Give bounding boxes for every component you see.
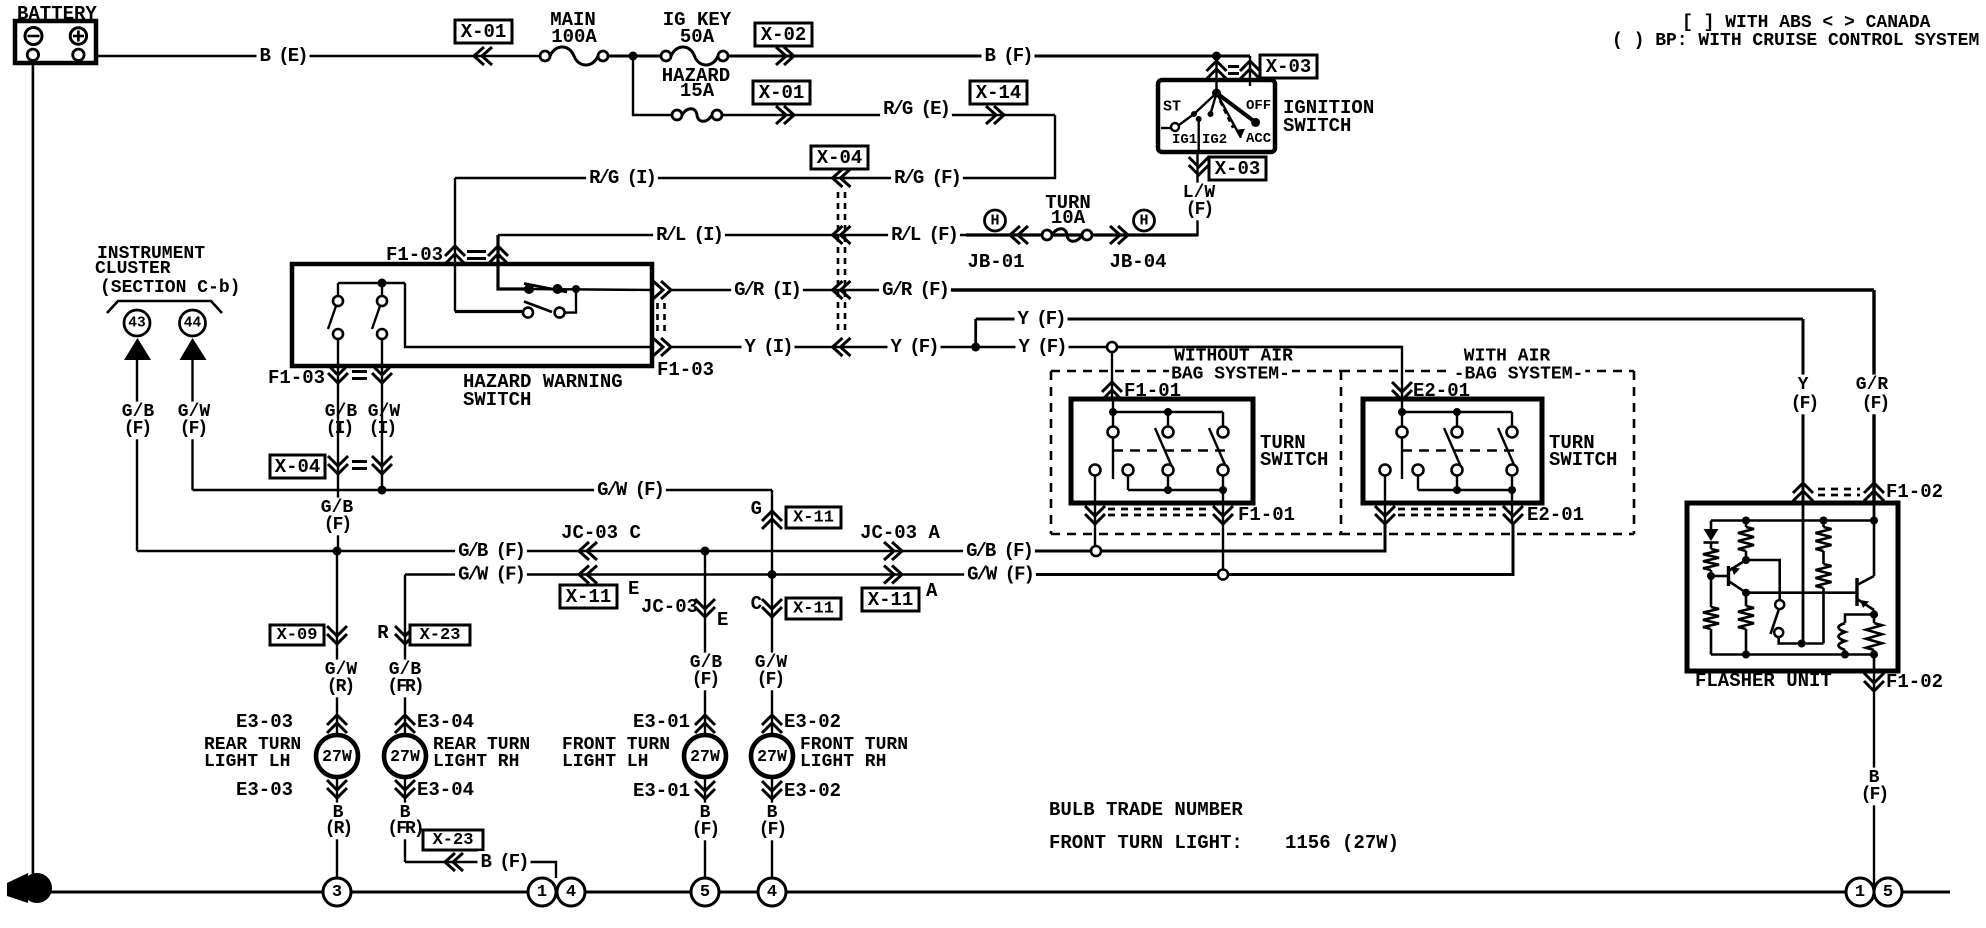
node G/B to turn switch 1 xyxy=(1091,546,1101,556)
label G/B (F) row right xyxy=(963,540,1035,562)
flasher unit box xyxy=(1687,503,1898,671)
connector E2-01 top xyxy=(1392,382,1412,400)
svg-text:ACC: ACC xyxy=(1246,131,1272,147)
svg-text:R: R xyxy=(377,622,389,644)
svg-text:LIGHT LH: LIGHT LH xyxy=(204,752,290,772)
label Y (I) xyxy=(742,336,795,358)
connector X-11 A xyxy=(884,566,902,584)
connector F1-03 right (G/R) xyxy=(653,281,671,299)
wire B (E) xyxy=(96,55,540,57)
svg-text:G/W (F): G/W (F) xyxy=(967,564,1033,586)
svg-text:G: G xyxy=(31,880,41,899)
svg-text:A: A xyxy=(926,580,938,602)
svg-text:G/B (F): G/B (F) xyxy=(458,540,524,562)
svg-text:E3-01: E3-01 xyxy=(633,711,690,733)
wire G/R (I) xyxy=(672,289,952,291)
label G/W (I) xyxy=(366,402,402,423)
wire B (F) jog xyxy=(405,862,556,878)
label G/W (F) lamp xyxy=(753,653,789,674)
label G/W (F) row right xyxy=(964,564,1036,586)
svg-text:LIGHT RH: LIGHT RH xyxy=(800,752,886,772)
svg-text:[ ] WITH ABS < > CANADA: [ ] WITH ABS < > CANADA xyxy=(1682,13,1931,33)
connector X-14 xyxy=(970,81,1027,104)
svg-text:X-09: X-09 xyxy=(277,626,318,645)
label R/G (F) xyxy=(891,167,963,189)
ignition switch contacts xyxy=(1161,80,1260,152)
svg-text:27W: 27W xyxy=(690,747,720,766)
svg-text:G/R: G/R xyxy=(1856,375,1889,395)
svg-text:E: E xyxy=(717,609,728,631)
wire G/B (F) from 43 xyxy=(136,360,138,551)
label B (E) xyxy=(257,45,310,67)
ground point 4 front xyxy=(758,878,786,906)
svg-text:SWITCH: SWITCH xyxy=(1283,115,1351,137)
svg-text:100A: 100A xyxy=(551,26,597,48)
label G/W (F) row xyxy=(594,479,666,501)
label B (F) front LH xyxy=(698,803,713,824)
svg-text:(F): (F) xyxy=(692,820,718,840)
connector B(F) chev xyxy=(445,853,463,871)
svg-text:H: H xyxy=(1139,213,1148,230)
connector X-01 (top) xyxy=(455,20,512,43)
svg-text:B (E): B (E) xyxy=(259,45,306,67)
connector E3-02 bottom xyxy=(762,781,782,799)
svg-text:R/G (F): R/G (F) xyxy=(894,167,960,189)
turn switch U2 box xyxy=(1363,399,1542,503)
wire R/G corner down xyxy=(455,115,1055,178)
svg-text:-BAG SYSTEM-: -BAG SYSTEM- xyxy=(1454,365,1584,385)
svg-text:X-23: X-23 xyxy=(433,831,474,850)
connector E3-04 bottom xyxy=(395,780,415,798)
svg-text:SWITCH: SWITCH xyxy=(1549,449,1617,471)
label G/R (F) xyxy=(879,279,951,301)
wire to HAZARD fuse xyxy=(633,56,672,115)
svg-text:X-04: X-04 xyxy=(817,147,863,169)
svg-text:F1-01: F1-01 xyxy=(1238,504,1295,526)
label R/G (I) xyxy=(586,167,658,189)
svg-text:X-11: X-11 xyxy=(566,586,612,608)
arrow 44 xyxy=(180,338,207,360)
svg-text:X-11: X-11 xyxy=(793,509,834,528)
label WITHOUT AIR BAG SYSTEM xyxy=(1172,346,1295,367)
label G/B (F) row left xyxy=(455,540,527,562)
svg-text:(SECTION C-b): (SECTION C-b) xyxy=(100,278,240,298)
ground symbol xyxy=(7,873,28,903)
indicator lamp 44 xyxy=(180,310,206,336)
node junction B xyxy=(629,52,638,61)
wire G/B (F) row xyxy=(137,550,1030,552)
battery xyxy=(15,3,97,63)
svg-text:5: 5 xyxy=(1883,883,1893,902)
ground point 1 right xyxy=(1846,878,1874,906)
indicator lamp 43 xyxy=(124,310,150,336)
svg-text:43: 43 xyxy=(128,316,145,332)
node G/W to turn switch 1 xyxy=(1218,570,1228,580)
wire G/B (I) down xyxy=(337,380,339,551)
svg-text:G/W (F): G/W (F) xyxy=(458,564,524,586)
wire Y (F) to flasher xyxy=(1802,319,1805,644)
svg-text:27W: 27W xyxy=(322,747,352,766)
wire G/W (F) row xyxy=(405,573,1035,575)
wire rear RH xyxy=(404,575,406,863)
node G/B junction front xyxy=(701,547,710,556)
connector X-04 row2 xyxy=(833,226,851,244)
lamp rear turn LH 27W xyxy=(316,735,358,777)
svg-text:44: 44 xyxy=(184,316,202,332)
svg-text:5: 5 xyxy=(700,883,710,902)
label B (F) flasher xyxy=(1867,768,1882,789)
hazard warning switch box xyxy=(292,264,652,366)
svg-text:B (F): B (F) xyxy=(480,851,527,873)
wire L/W (F) xyxy=(1190,152,1198,235)
svg-text:R/G (E): R/G (E) xyxy=(883,98,949,120)
svg-text:X-01: X-01 xyxy=(461,21,507,43)
svg-text:X-11: X-11 xyxy=(868,589,914,611)
hazard switch contacts xyxy=(455,235,652,318)
node G/W junction front xyxy=(768,570,777,579)
ground bus wire xyxy=(36,891,1950,894)
instrument cluster bracket xyxy=(107,301,222,313)
node G/B junction left xyxy=(333,547,342,556)
wire B ground-side: battery to ground bus xyxy=(32,63,35,880)
svg-text:4: 4 xyxy=(767,883,777,902)
dashed box WITH AIR BAG SYSTEM xyxy=(1341,370,1634,373)
connector X-09 xyxy=(270,625,324,645)
svg-text:(F): (F) xyxy=(324,515,350,535)
svg-text:X-02: X-02 xyxy=(761,24,807,46)
svg-text:G/R (F): G/R (F) xyxy=(882,279,948,301)
node G/W junction xyxy=(378,486,387,495)
label G/R (F) flasher xyxy=(1854,375,1890,396)
svg-text:(F): (F) xyxy=(1791,394,1817,414)
svg-text:X-04: X-04 xyxy=(275,456,321,478)
wire front LH xyxy=(704,551,706,892)
svg-text:15A: 15A xyxy=(680,80,715,102)
svg-text:E3-01: E3-01 xyxy=(633,780,690,802)
svg-text:BAG SYSTEM-: BAG SYSTEM- xyxy=(1171,365,1290,385)
svg-text:B (F): B (F) xyxy=(984,45,1031,67)
wire Y to turn switch 1 xyxy=(1111,352,1113,399)
connector X-03 (top) xyxy=(1207,61,1227,79)
svg-text:G/W (F): G/W (F) xyxy=(597,479,663,501)
label B (F) xyxy=(982,45,1035,67)
dashed box WITHOUT AIR BAG SYSTEM xyxy=(1051,370,1341,373)
svg-text:JC-03: JC-03 xyxy=(641,596,698,618)
svg-text:X-14: X-14 xyxy=(976,82,1022,104)
svg-text:WITH AIR: WITH AIR xyxy=(1464,347,1551,367)
wire G/W (F) from 44 xyxy=(191,360,193,490)
svg-text:X-01: X-01 xyxy=(759,82,805,104)
svg-text:F1-03: F1-03 xyxy=(657,359,714,381)
svg-text:Y: Y xyxy=(1798,375,1809,395)
wire R/G (E) xyxy=(722,114,1055,116)
connector X-03 (lower) xyxy=(1189,157,1209,175)
wire R/L (I) xyxy=(498,234,966,236)
flasher internals xyxy=(1703,503,1882,671)
wire U2 to G/W wire xyxy=(1512,523,1514,575)
svg-text:4: 4 xyxy=(566,883,576,902)
svg-text:X-03: X-03 xyxy=(1215,158,1261,180)
svg-text:(R): (R) xyxy=(325,819,351,839)
label G/B (FR) xyxy=(387,660,423,681)
svg-text:X-23: X-23 xyxy=(420,626,461,645)
wire G/W (I) down xyxy=(381,380,383,490)
svg-text:(F): (F) xyxy=(124,419,150,439)
lamp front turn RH 27W xyxy=(751,735,793,777)
connector E3-04 top xyxy=(395,715,415,733)
svg-text:3: 3 xyxy=(332,883,342,902)
ground point 1 xyxy=(528,878,556,906)
svg-text:JB-04: JB-04 xyxy=(1109,251,1166,273)
connector E3-02 top xyxy=(762,715,782,733)
svg-text:R/G (I): R/G (I) xyxy=(589,167,655,189)
svg-text:G/R (I): G/R (I) xyxy=(734,279,800,301)
svg-text:E3-02: E3-02 xyxy=(784,711,841,733)
turn switch U1 contacts xyxy=(1090,399,1229,523)
connector X-04 row1 xyxy=(811,146,868,169)
svg-text:1: 1 xyxy=(537,883,547,902)
wire front RH xyxy=(771,490,773,892)
ground point 3 xyxy=(323,878,351,906)
ground point 5 xyxy=(691,878,719,906)
svg-text:27W: 27W xyxy=(390,747,420,766)
svg-text:E3-03: E3-03 xyxy=(236,711,293,733)
label Y (F) upper xyxy=(1015,308,1068,330)
wire G/R (F) to flasher xyxy=(1872,290,1875,521)
svg-text:LIGHT LH: LIGHT LH xyxy=(562,752,648,772)
label Y (F) flasher xyxy=(1796,375,1811,396)
wire G/W (F) upper row xyxy=(193,489,773,491)
svg-text:Y (F): Y (F) xyxy=(890,336,937,358)
connector X-04 dashed link xyxy=(837,192,840,333)
svg-text:LIGHT RH: LIGHT RH xyxy=(433,752,519,772)
wire to G/W tap xyxy=(1222,523,1224,569)
svg-text:R/L (I): R/L (I) xyxy=(656,224,722,246)
svg-text:JB-01: JB-01 xyxy=(967,251,1024,273)
wire B (F) xyxy=(728,55,1250,58)
svg-text:SWITCH: SWITCH xyxy=(463,389,531,411)
lamp rear turn RH 27W xyxy=(384,735,426,777)
svg-text:(FR): (FR) xyxy=(387,819,422,839)
svg-text:BULB TRADE NUMBER: BULB TRADE NUMBER xyxy=(1049,799,1243,821)
svg-text:X-03: X-03 xyxy=(1266,56,1312,78)
label B (R) xyxy=(331,803,346,824)
connector JB-04 xyxy=(1110,226,1128,244)
wire to G/B tap xyxy=(1094,523,1096,546)
ignition switch box xyxy=(1158,80,1275,152)
label Y (F) xyxy=(888,336,941,358)
ground point 4 xyxy=(557,878,585,906)
svg-text:G/B (F): G/B (F) xyxy=(966,540,1032,562)
svg-text:Y (F): Y (F) xyxy=(1018,336,1065,358)
label G/B (I) xyxy=(323,402,359,423)
svg-text:E3-04: E3-04 xyxy=(417,779,474,801)
connector F1-03 right (Y) xyxy=(653,338,671,356)
connector X-11 E xyxy=(579,566,597,584)
connector X-04 left xyxy=(270,455,325,478)
wire Y (F) upper xyxy=(976,318,1803,321)
connector F1-02 bottom xyxy=(1864,673,1884,691)
svg-text:C: C xyxy=(751,593,762,615)
label R/L (F) xyxy=(888,224,960,246)
svg-text:E3-02: E3-02 xyxy=(784,780,841,802)
svg-text:(F): (F) xyxy=(759,820,785,840)
wire Y (I) xyxy=(672,346,1402,348)
arrow 43 xyxy=(124,338,151,360)
label G/B (F) column xyxy=(319,498,355,519)
svg-text:Y (F): Y (F) xyxy=(1017,308,1064,330)
svg-text:50A: 50A xyxy=(680,26,715,48)
node Y tap xyxy=(1107,342,1117,352)
label G/B (F) cluster xyxy=(120,402,156,423)
connector X-01 (hazard row) xyxy=(753,81,810,104)
hazard switch poles xyxy=(328,266,652,380)
svg-text:E2-01: E2-01 xyxy=(1527,504,1584,526)
svg-text:R/L (F): R/L (F) xyxy=(891,224,957,246)
svg-text:F1-03: F1-03 xyxy=(386,244,443,266)
svg-text:( ) BP: WITH CRUISE CONTROL SY: ( ) BP: WITH CRUISE CONTROL SYSTEM xyxy=(1612,31,1979,51)
wire Y to turn switch 2 xyxy=(1117,347,1402,399)
svg-text:E: E xyxy=(628,578,639,600)
svg-text:FLASHER UNIT: FLASHER UNIT xyxy=(1695,670,1832,692)
svg-text:(R): (R) xyxy=(327,677,353,697)
label L/W (F) xyxy=(1181,183,1217,204)
lamp front turn LH 27W xyxy=(684,735,726,777)
svg-text:G: G xyxy=(751,498,762,520)
label R/G (E) xyxy=(880,98,952,120)
label Y (F) lower xyxy=(1016,336,1069,358)
svg-text:E3-03: E3-03 xyxy=(236,779,293,801)
svg-text:IG1: IG1 xyxy=(1172,132,1197,148)
svg-text:F1-02: F1-02 xyxy=(1886,481,1943,503)
node junction ignition feed xyxy=(1212,52,1221,61)
svg-text:(F): (F) xyxy=(180,419,206,439)
label G/B (F) lamp xyxy=(688,653,724,674)
svg-text:(F): (F) xyxy=(1862,394,1888,414)
turn switch U2 contacts xyxy=(1380,399,1518,523)
svg-text:H: H xyxy=(990,213,999,230)
connector X-04 row4 xyxy=(833,338,851,356)
svg-text:ST: ST xyxy=(1163,99,1181,116)
node Y junction xyxy=(971,343,980,352)
label R/L (I) xyxy=(653,224,725,246)
ground point 5 right xyxy=(1874,878,1902,906)
connector JB-01 xyxy=(985,210,1006,231)
svg-text:IG2: IG2 xyxy=(1202,132,1227,148)
wire into ignition switch xyxy=(1215,56,1217,93)
svg-text:X-11: X-11 xyxy=(793,600,834,619)
label G/W (F) row left xyxy=(455,564,527,586)
connector F1-01 bottom xyxy=(1085,506,1105,524)
svg-text:CLUSTER: CLUSTER xyxy=(95,259,171,279)
svg-text:OFF: OFF xyxy=(1246,98,1271,114)
svg-text:(F): (F) xyxy=(757,670,783,690)
wire xyxy=(608,55,661,58)
wire U2 to G/B wire xyxy=(1384,523,1386,551)
svg-text:SWITCH: SWITCH xyxy=(1260,449,1328,471)
wire rear LH xyxy=(336,551,338,892)
svg-text:F1-02: F1-02 xyxy=(1886,671,1943,693)
svg-text:1: 1 xyxy=(1855,883,1865,902)
svg-text:JC-03 C: JC-03 C xyxy=(561,522,641,544)
svg-text:(F): (F) xyxy=(692,670,718,690)
label B (F) front RH xyxy=(765,803,780,824)
svg-text:27W: 27W xyxy=(757,747,787,766)
wire R/G (I) vertical into hazard switch xyxy=(454,178,456,268)
label B (F) bottom xyxy=(478,851,531,873)
connector F1-01 top xyxy=(1102,382,1122,400)
svg-text:10A: 10A xyxy=(1051,207,1086,229)
connector X-23 bottom xyxy=(423,830,483,850)
connector F1-02 top xyxy=(1793,483,1813,501)
svg-text:(F): (F) xyxy=(1186,200,1212,220)
label G/R (I) xyxy=(731,279,803,301)
svg-text:Y (I): Y (I) xyxy=(744,336,791,358)
svg-text:(F): (F) xyxy=(1861,785,1887,805)
connector X-04 row3 xyxy=(833,281,851,299)
svg-text:JC-03 A: JC-03 A xyxy=(860,522,940,544)
connector E2-01 bottom xyxy=(1375,506,1395,524)
svg-text:1156 (27W): 1156 (27W) xyxy=(1285,832,1399,854)
svg-text:FRONT TURN LIGHT:: FRONT TURN LIGHT: xyxy=(1049,832,1243,854)
turn switch U1 box xyxy=(1071,399,1253,503)
label B (FR) xyxy=(398,803,413,824)
wire B (F) to ground xyxy=(1873,671,1875,892)
label G/W (R) xyxy=(323,660,359,681)
svg-text:E3-04: E3-04 xyxy=(417,711,474,733)
label WITH AIR BAG SYSTEM xyxy=(1462,346,1552,367)
svg-text:WITHOUT AIR: WITHOUT AIR xyxy=(1174,347,1293,367)
label G/W (F) cluster xyxy=(176,402,212,423)
connector X-02 xyxy=(755,23,812,46)
svg-text:F1-03: F1-03 xyxy=(268,367,325,389)
svg-text:(FR): (FR) xyxy=(387,677,422,697)
